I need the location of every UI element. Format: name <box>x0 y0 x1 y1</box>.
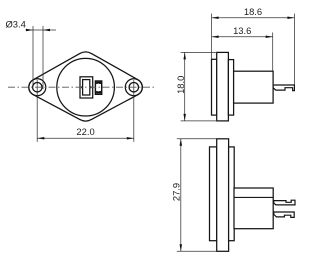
svg-text:22.0: 22.0 <box>76 126 94 137</box>
svg-text:Ø3.4: Ø3.4 <box>6 18 26 29</box>
svg-text:18.6: 18.6 <box>244 6 262 17</box>
svg-text:18.0: 18.0 <box>175 76 186 94</box>
svg-text:27.9: 27.9 <box>170 183 181 201</box>
svg-text:13.6: 13.6 <box>233 25 251 36</box>
